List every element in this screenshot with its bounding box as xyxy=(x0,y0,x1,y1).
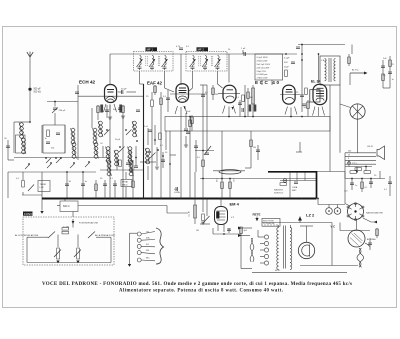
svg-text:47kΩ 0,5W: 47kΩ 0,5W xyxy=(257,61,269,63)
svg-text:50k: 50k xyxy=(51,148,54,150)
svg-text:600 Ω: 600 Ω xyxy=(63,205,70,208)
svg-text:MOD.: MOD. xyxy=(275,270,281,272)
svg-text:EM 4: EM 4 xyxy=(230,202,240,207)
svg-text:RADD.: RADD. xyxy=(122,183,128,186)
svg-text:SURVOLT.: SURVOLT. xyxy=(274,192,284,194)
svg-text:1M: 1M xyxy=(196,230,199,232)
svg-text:2x0,1µF 150V: 2x0,1µF 150V xyxy=(257,64,271,66)
svg-text:RETE: RETE xyxy=(253,212,261,216)
svg-text:METAL: METAL xyxy=(122,181,128,184)
svg-text:0,1 M: 0,1 M xyxy=(189,211,191,216)
svg-text:MIC.: MIC. xyxy=(146,258,150,260)
svg-text:AL FONORIVELATORE: AL FONORIVELATORE xyxy=(15,234,39,237)
svg-text:LUPA: LUPA xyxy=(174,191,180,194)
svg-text:15: 15 xyxy=(348,154,350,156)
svg-text:EL 34: EL 34 xyxy=(311,80,321,84)
svg-text:250 pF: 250 pF xyxy=(59,110,66,112)
svg-text:RIV.: RIV. xyxy=(146,250,150,252)
svg-text:TERM: TERM xyxy=(40,184,46,186)
svg-text:500: 500 xyxy=(348,151,351,153)
svg-text:0,5 MΩ pot.: 0,5 MΩ pot. xyxy=(257,73,269,76)
svg-text:0,1µF 350V: 0,1µF 350V xyxy=(257,57,269,59)
svg-text:50k: 50k xyxy=(304,107,307,109)
svg-text:MF 2: MF 2 xyxy=(198,47,205,51)
svg-text:OM: OM xyxy=(127,157,131,159)
svg-text:25 k: 25 k xyxy=(217,178,219,182)
svg-text:FONORIVELATORE: FONORIVELATORE xyxy=(79,222,99,225)
svg-text:1 nF: 1 nF xyxy=(241,48,246,50)
svg-text:LUP.: LUP. xyxy=(40,187,45,189)
svg-text:10 k: 10 k xyxy=(234,178,236,182)
svg-text:1n: 1n xyxy=(392,79,394,81)
svg-text:1n: 1n xyxy=(45,138,47,140)
svg-text:0,1µF: 0,1µF xyxy=(284,58,290,60)
svg-text:C.A.V.: C.A.V. xyxy=(321,59,327,62)
svg-text:1M: 1M xyxy=(250,97,253,99)
svg-text:GS 45: GS 45 xyxy=(367,146,374,148)
svg-text:FONO: FONO xyxy=(24,212,33,216)
svg-text:Alimentatore separato. Potenza: Alimentatore separato. Potenza di uscita… xyxy=(119,289,283,294)
svg-text:25µF 25V: 25µF 25V xyxy=(257,71,267,73)
svg-text:RADDRIZ.: RADDRIZ. xyxy=(274,189,284,192)
svg-text:MET.: MET. xyxy=(292,190,297,192)
svg-text:220 kΩ 0,5W: 220 kΩ 0,5W xyxy=(257,67,271,69)
svg-text:ALLA PRESA FONO: ALLA PRESA FONO xyxy=(95,234,115,237)
svg-text:50 pF: 50 pF xyxy=(121,89,127,91)
svg-text:1 MΩ 0,5W: 1 MΩ 0,5W xyxy=(257,78,269,80)
svg-text:1M: 1M xyxy=(215,94,218,96)
svg-text:ECH 42: ECH 42 xyxy=(79,80,96,85)
svg-text:al p.u.: al p.u. xyxy=(352,163,358,165)
svg-text:AL P.U.: AL P.U. xyxy=(352,69,359,72)
svg-text:1M: 1M xyxy=(253,147,256,149)
svg-text:VOCE DEL PADRONE - FONORADIO m: VOCE DEL PADRONE - FONORADIO mod. 561. O… xyxy=(42,282,352,287)
svg-text:M.A.: M.A. xyxy=(146,237,150,240)
svg-text:0,5 MΩ: 0,5 MΩ xyxy=(63,227,70,229)
svg-text:M.1: M.1 xyxy=(146,244,149,246)
svg-text:ECC 40: ECC 40 xyxy=(255,80,279,85)
svg-text:AL GIRAD.: AL GIRAD. xyxy=(367,238,377,241)
svg-text:500 pF: 500 pF xyxy=(34,89,42,91)
svg-text:LUFA: LUFA xyxy=(292,186,298,189)
svg-text:500 kΩ: 500 kΩ xyxy=(34,91,42,93)
svg-text:25µF: 25µF xyxy=(284,67,290,69)
svg-text:8: 8 xyxy=(348,158,349,160)
svg-text:EAF 42: EAF 42 xyxy=(147,81,162,86)
svg-text:50V: 50V xyxy=(284,62,288,64)
svg-text:RADDRIZZATORE: RADDRIZZATORE xyxy=(366,212,383,215)
svg-text:50 pF: 50 pF xyxy=(115,139,121,141)
svg-text:1n: 1n xyxy=(355,185,357,187)
svg-text:V C: V C xyxy=(331,225,336,229)
svg-text:LZ 2: LZ 2 xyxy=(306,213,315,218)
svg-text:MF 1: MF 1 xyxy=(147,47,154,51)
